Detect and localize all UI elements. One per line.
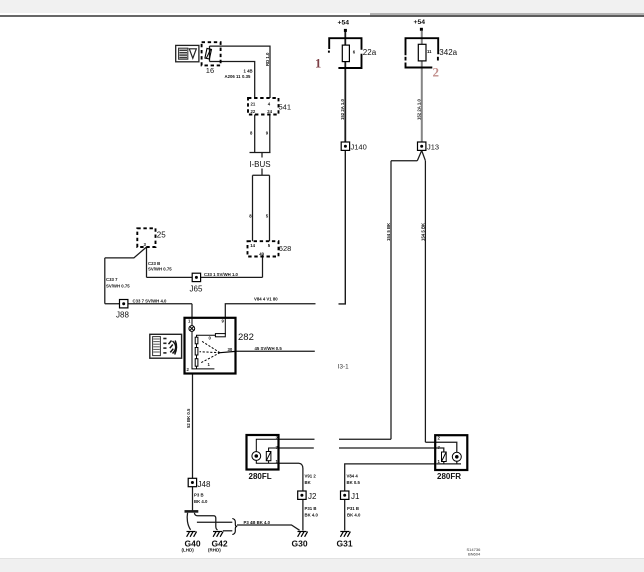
svg-text:RD 1.0: RD 1.0 — [265, 52, 270, 66]
svg-text:8: 8 — [250, 131, 253, 136]
svg-text:J48: J48 — [198, 480, 211, 489]
svg-text:P31 B: P31 B — [305, 506, 317, 511]
svg-text:2: 2 — [433, 65, 440, 80]
svg-text:BK: BK — [305, 480, 312, 485]
svg-text:14: 14 — [250, 243, 255, 248]
svg-text:J13: J13 — [427, 142, 439, 151]
svg-text:V84 4 V1 80: V84 4 V1 80 — [254, 297, 278, 302]
svg-text:BK 4.0: BK 4.0 — [194, 499, 208, 504]
svg-text:342a: 342a — [439, 48, 457, 57]
svg-text:8: 8 — [249, 214, 252, 219]
svg-text:3: 3 — [144, 242, 147, 247]
svg-text:J88: J88 — [116, 311, 129, 320]
svg-text:V84 4: V84 4 — [347, 474, 359, 479]
svg-text:280FL: 280FL — [249, 472, 272, 481]
svg-text:154 5 BK: 154 5 BK — [386, 222, 391, 241]
svg-text:52 BK 0.5: 52 BK 0.5 — [186, 408, 191, 428]
svg-text:V91 2: V91 2 — [305, 474, 317, 479]
svg-text:1 4B: 1 4B — [244, 68, 253, 73]
svg-text:22a: 22a — [363, 48, 377, 57]
svg-text:30: 30 — [228, 347, 233, 352]
svg-text:C33 7 SV/WH 4.0: C33 7 SV/WH 4.0 — [133, 298, 168, 303]
svg-text:22: 22 — [251, 109, 256, 114]
svg-text:BK 0.5: BK 0.5 — [347, 480, 361, 485]
svg-text:SV/WH 0.75: SV/WH 0.75 — [106, 284, 130, 289]
svg-text:1: 1 — [188, 318, 191, 323]
svg-text:21: 21 — [251, 102, 256, 107]
svg-text:A206 11: A206 11 — [225, 74, 242, 79]
svg-text:P3 B: P3 B — [194, 492, 204, 497]
svg-text:P31 B: P31 B — [347, 506, 359, 511]
svg-text:9: 9 — [266, 131, 269, 136]
svg-text:5: 5 — [268, 243, 271, 248]
svg-text:J65: J65 — [190, 285, 203, 294]
svg-text:+54: +54 — [414, 19, 426, 26]
svg-text:1: 1 — [438, 459, 441, 464]
svg-text:(RHD): (RHD) — [208, 548, 221, 553]
svg-text:J1: J1 — [351, 492, 360, 501]
svg-text:152 2A 1.0: 152 2A 1.0 — [417, 99, 422, 120]
svg-text:25: 25 — [157, 231, 166, 240]
svg-text:BN604: BN604 — [468, 551, 481, 556]
svg-text:J2: J2 — [308, 492, 317, 501]
svg-text:1: 1 — [315, 57, 321, 71]
svg-text:9: 9 — [222, 318, 225, 323]
svg-text:628: 628 — [279, 244, 292, 253]
svg-text:(LHD): (LHD) — [182, 548, 195, 553]
svg-text:BK 4.0: BK 4.0 — [347, 513, 361, 518]
svg-text:45 SV/WH 0.5: 45 SV/WH 0.5 — [255, 346, 283, 351]
svg-text:P3 4B BK 4.0: P3 4B BK 4.0 — [244, 520, 271, 525]
svg-text:I3-1: I3-1 — [338, 363, 349, 370]
svg-text:280FR: 280FR — [437, 472, 461, 481]
svg-text:154 5 BK: 154 5 BK — [420, 222, 425, 241]
svg-text:16: 16 — [206, 66, 214, 75]
svg-text:C33 7: C33 7 — [106, 277, 118, 282]
svg-text:0.35: 0.35 — [242, 74, 251, 79]
svg-text:2: 2 — [187, 367, 190, 372]
svg-text:541: 541 — [279, 103, 292, 112]
svg-text:152 2A 1.0: 152 2A 1.0 — [340, 99, 345, 120]
svg-text:G30: G30 — [292, 538, 308, 548]
svg-text:6: 6 — [353, 50, 356, 55]
svg-text:I-BUS: I-BUS — [249, 160, 270, 169]
svg-text:1: 1 — [208, 362, 211, 367]
svg-text:5: 5 — [266, 214, 269, 219]
svg-text:J140: J140 — [351, 142, 367, 151]
svg-text:4: 4 — [268, 102, 271, 107]
svg-text:49: 49 — [259, 252, 264, 257]
svg-text:11: 11 — [427, 49, 432, 54]
svg-text:C33 1 SV/WH 1.0: C33 1 SV/WH 1.0 — [204, 272, 239, 277]
svg-text:BK 4.0: BK 4.0 — [305, 513, 319, 518]
svg-text:G31: G31 — [337, 538, 353, 548]
svg-text:SV/WH 0.75: SV/WH 0.75 — [148, 267, 172, 272]
svg-text:0: 0 — [209, 336, 212, 341]
svg-text:24: 24 — [267, 109, 272, 114]
svg-text:+54: +54 — [338, 20, 350, 27]
svg-text:C23 B: C23 B — [148, 261, 160, 266]
svg-text:282: 282 — [238, 332, 254, 343]
